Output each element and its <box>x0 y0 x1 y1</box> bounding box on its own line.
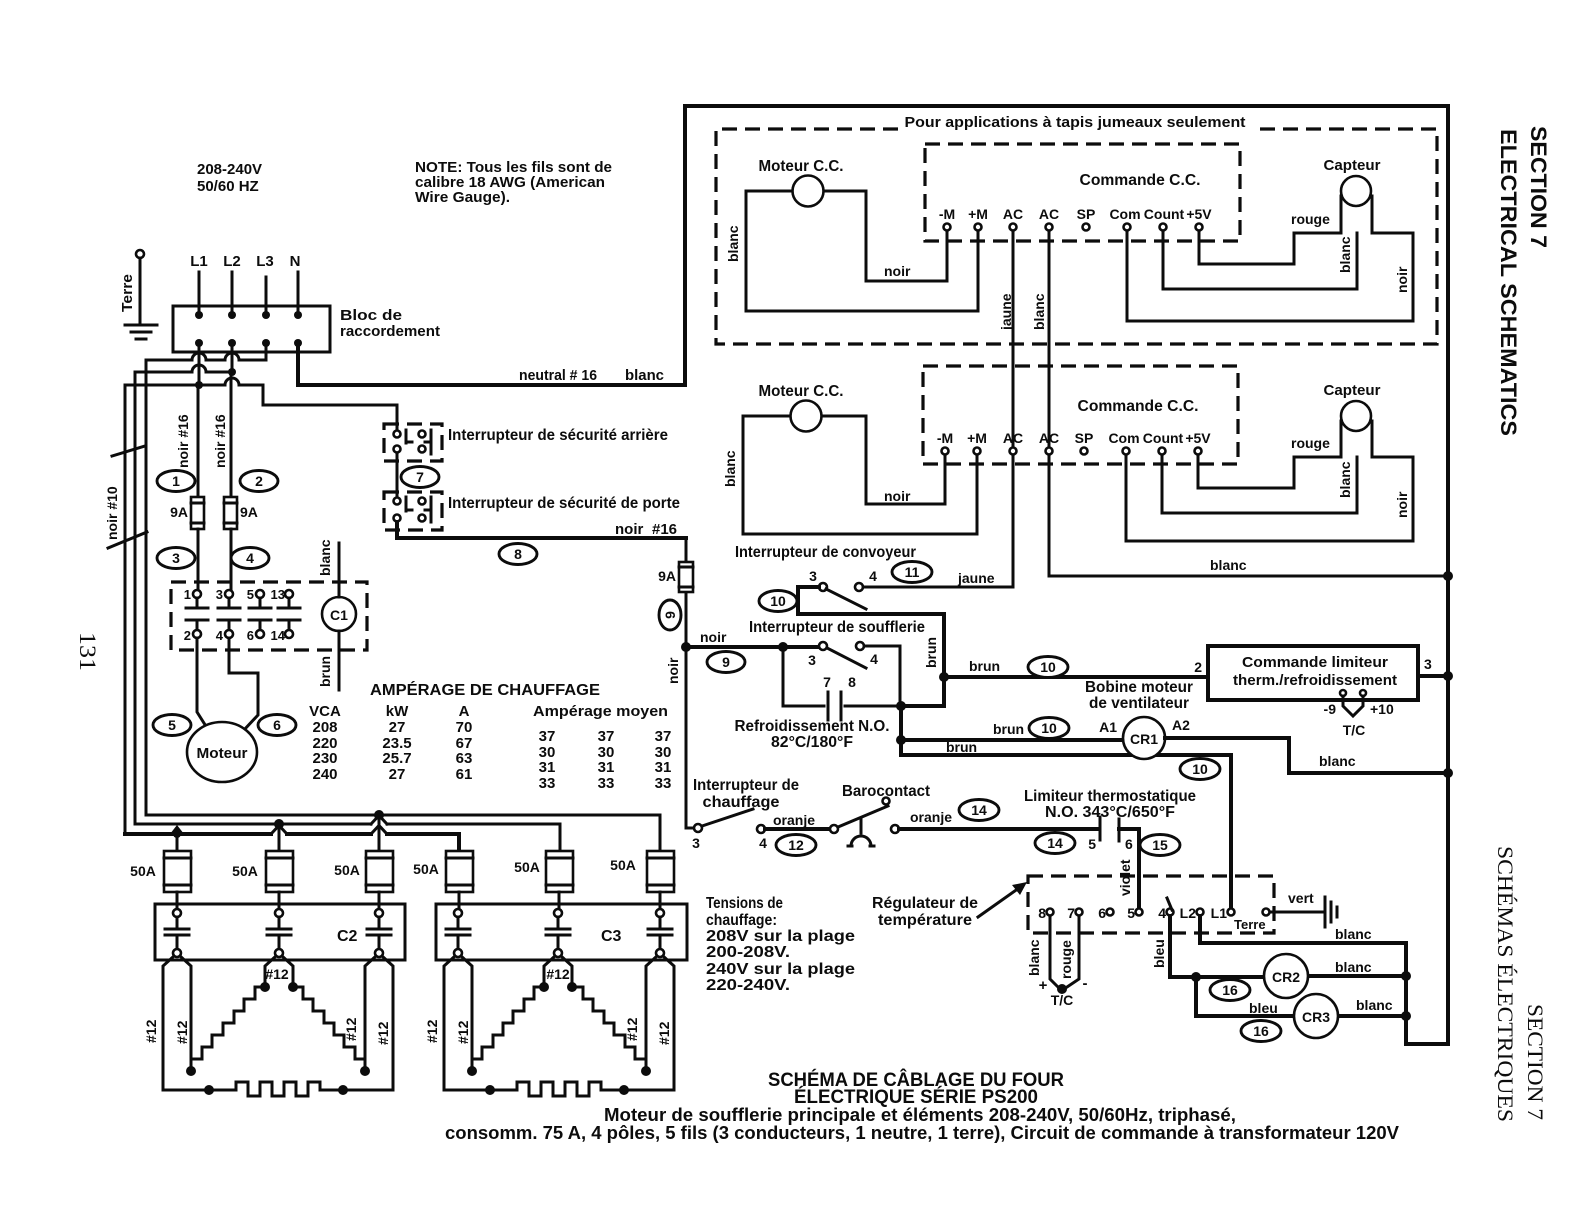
svg-text:Moteur C.C.: Moteur C.C. <box>759 158 844 175</box>
circled 4 <box>231 548 269 569</box>
C3 element junction dots <box>539 982 549 992</box>
junction dot on rail <box>1443 768 1453 778</box>
svg-text:5: 5 <box>1127 905 1135 921</box>
leader tick lower <box>108 532 147 548</box>
svg-text:#12: #12 <box>375 1021 391 1045</box>
svg-text:AC: AC <box>1039 430 1059 446</box>
C2 bottom junction dots <box>204 1085 214 1095</box>
fuse F3 9A (control) <box>658 538 693 647</box>
svg-text:7: 7 <box>416 469 424 485</box>
svg-text:blanc: blanc <box>1337 236 1353 273</box>
circled 10 <box>759 591 797 612</box>
svg-text:230: 230 <box>312 750 337 767</box>
wire soufflerie 4 down <box>864 646 900 706</box>
svg-text:7: 7 <box>1067 905 1075 921</box>
wire terre to ground vert <box>1270 911 1325 914</box>
svg-text:L3: L3 <box>256 253 274 270</box>
element heater zigzag C2 right <box>293 987 365 1071</box>
C1 contact 13-14 <box>271 587 300 643</box>
C3 pole 3 contact <box>648 909 672 957</box>
svg-text:noir: noir <box>700 629 727 645</box>
C3 pole3 tent wires <box>646 956 674 1090</box>
svg-text:208V sur la plage: 208V sur la plage <box>706 928 855 945</box>
svg-text:11: 11 <box>905 564 920 580</box>
svg-text:consomm. 75 A, 4 pôles, 5 fils: consomm. 75 A, 4 pôles, 5 fils (3 conduc… <box>445 1123 1399 1143</box>
wire L2 phase: down, left with hop, down middle column <box>135 343 232 824</box>
svg-text:Bobine moteur: Bobine moteur <box>1085 679 1193 696</box>
svg-text:AMPÉRAGE DE CHAUFFAGE: AMPÉRAGE DE CHAUFFAGE <box>370 680 600 699</box>
svg-text:33: 33 <box>655 775 672 792</box>
svg-text:50/60 HZ: 50/60 HZ <box>197 178 259 195</box>
svg-text:Régulateur de: Régulateur de <box>872 895 978 912</box>
svg-text:82°C/180°F: 82°C/180°F <box>771 734 853 751</box>
svg-text:14: 14 <box>1047 835 1063 851</box>
circled 14 <box>1035 833 1075 854</box>
box commande limiteur therm./refroidissement <box>1208 646 1418 700</box>
C2 pole 1 contact <box>165 909 189 957</box>
svg-text:Com: Com <box>1108 430 1139 446</box>
svg-text:SP: SP <box>1077 206 1096 222</box>
ground symbol (rotated) <box>1325 897 1337 927</box>
svg-text:33: 33 <box>598 775 615 792</box>
svg-text:brun: brun <box>923 637 939 668</box>
svg-text:brun: brun <box>969 658 1000 674</box>
junction fuse2 on middle feeder <box>274 819 284 829</box>
svg-text:noir: noir <box>615 521 643 538</box>
wire L2 stub <box>231 272 234 311</box>
wire violet limiteur to regulateur 5 <box>1119 829 1139 907</box>
C2 pole 2 contact <box>267 909 291 957</box>
wire fuse2 stem <box>278 824 281 851</box>
svg-text:jaune: jaune <box>998 293 1014 331</box>
svg-text:2: 2 <box>1194 659 1202 675</box>
svg-text:2: 2 <box>184 628 191 643</box>
svg-text:9A: 9A <box>240 504 258 520</box>
svg-text:L2: L2 <box>1180 905 1197 921</box>
wire C1 contact4 to motor <box>229 638 258 731</box>
wire noir down to chauffage <box>686 647 694 828</box>
svg-text:blanc: blanc <box>725 225 741 262</box>
wire fuse3 stem <box>378 815 381 851</box>
circled 9 (rotated) <box>659 600 681 630</box>
porte contacts <box>394 497 432 522</box>
leader tick upper <box>112 446 145 456</box>
junction fuse3 on top feeder <box>374 810 384 820</box>
svg-text:SP: SP <box>1075 430 1094 446</box>
wire L3 phase: down, left with hops, down left column <box>146 343 266 815</box>
svg-text:Capteur: Capteur <box>1324 157 1381 174</box>
svg-text:31: 31 <box>539 759 556 776</box>
wire Com1 noir to capteur <box>1127 231 1413 321</box>
svg-text:chauffage:: chauffage: <box>706 912 777 929</box>
element heater zigzag C3 left <box>472 987 544 1071</box>
svg-text:#16: #16 <box>652 521 677 538</box>
wire fuse1 to C1 contact 1 <box>197 529 200 589</box>
svg-text:14: 14 <box>971 802 987 818</box>
svg-text:63: 63 <box>456 750 473 767</box>
svg-text:Pour applications à tapis jume: Pour applications à tapis jumeaux seulem… <box>905 114 1246 131</box>
wire hop L1-branch over L2 <box>225 378 239 385</box>
circled 7 <box>401 467 439 488</box>
svg-text:oranje: oranje <box>773 812 815 828</box>
tick above regulateur terminal 4 <box>1167 898 1172 910</box>
svg-text:Commande C.C.: Commande C.C. <box>1080 172 1201 189</box>
svg-text:Capteur: Capteur <box>1324 382 1381 399</box>
terminals block2 <box>937 430 1211 455</box>
svg-text:noir: noir <box>884 263 911 279</box>
svg-text:#12: #12 <box>424 1019 440 1043</box>
svg-text:rouge: rouge <box>1291 435 1330 451</box>
motor Moteur <box>187 722 257 782</box>
circled 8 <box>499 544 537 565</box>
svg-text:noir #16: noir #16 <box>175 414 191 468</box>
svg-text:N.O. 343°C/650°F: N.O. 343°C/650°F <box>1045 804 1175 821</box>
svg-text:Refroidissement N.O.: Refroidissement N.O. <box>735 718 890 735</box>
contactor C1 dashed box <box>171 582 367 650</box>
terminals block1: -M +M AC AC SP Com Count +5V <box>939 206 1212 231</box>
fuse F2 9A <box>224 497 258 529</box>
svg-text:T/C: T/C <box>1343 722 1366 738</box>
svg-text:vert: vert <box>1288 890 1314 906</box>
svg-text:Interrupteur de convoyeur: Interrupteur de convoyeur <box>735 544 916 561</box>
svg-text:blanc: blanc <box>625 367 664 384</box>
svg-text:4: 4 <box>246 550 254 566</box>
svg-text:Terre: Terre <box>1234 917 1266 932</box>
circled 9 <box>707 652 745 673</box>
svg-text:16: 16 <box>1222 982 1238 998</box>
svg-text:#12: #12 <box>455 1020 471 1044</box>
svg-text:Moteur: Moteur <box>197 745 248 762</box>
svg-text:blanc: blanc <box>1319 753 1356 769</box>
svg-text:50A: 50A <box>514 859 540 875</box>
fuse 50A no.6 <box>610 851 674 892</box>
svg-text:50A: 50A <box>232 863 258 879</box>
svg-text:noir #16: noir #16 <box>212 414 228 468</box>
title block bottom <box>445 1069 1399 1143</box>
svg-text:27: 27 <box>389 766 406 783</box>
svg-text:blanc: blanc <box>317 539 333 576</box>
element heater zigzag C2 left <box>191 987 265 1071</box>
svg-text:50A: 50A <box>413 861 439 877</box>
wire oranje barocontact to limiteur <box>899 827 1097 831</box>
svg-text:neutral # 16: neutral # 16 <box>519 367 597 384</box>
svg-text:CR3: CR3 <box>1302 1009 1330 1025</box>
junction fuse1 on bottom feeder <box>170 825 184 834</box>
svg-text:31: 31 <box>598 759 615 776</box>
circled 1 <box>157 471 195 492</box>
svg-text:200-208V.: 200-208V. <box>706 944 790 961</box>
svg-text:9A: 9A <box>170 504 188 520</box>
svg-text:C2: C2 <box>337 928 358 945</box>
svg-text:131: 131 <box>75 632 100 671</box>
circled 5 <box>153 715 191 736</box>
wire L1 branch to security switches with hop over L2 <box>199 385 397 430</box>
svg-text:240: 240 <box>312 766 337 783</box>
contactor C3 box <box>436 904 687 960</box>
svg-text:9: 9 <box>722 654 730 670</box>
wire motor2 right noir to -M <box>822 416 945 504</box>
svg-text:31: 31 <box>655 759 672 776</box>
element heater zigzag C3 right <box>572 987 646 1071</box>
relay coil CR3 <box>1196 977 1406 1038</box>
svg-text:therm./refroidissement: therm./refroidissement <box>1233 672 1397 689</box>
wire fuse2 to C1 contact 3 <box>230 529 233 589</box>
svg-text:Moteur de soufflerie principa: Moteur de soufflerie principale et éléme… <box>604 1105 1236 1125</box>
svg-text:blanc: blanc <box>1031 293 1047 330</box>
wire noir#16 L2 down to fuse 2 <box>230 372 233 497</box>
svg-text:15: 15 <box>1152 837 1168 853</box>
fuse 50A no.1 <box>130 851 191 892</box>
C3 pole2 tent wires <box>544 956 572 987</box>
svg-text:N: N <box>290 253 301 270</box>
svg-text:oranje: oranje <box>910 809 952 825</box>
svg-text:C3: C3 <box>601 928 622 945</box>
wire +5V1 rouge to capteur <box>1199 231 1341 264</box>
svg-text:L1: L1 <box>1211 905 1228 921</box>
svg-text:6: 6 <box>1098 905 1106 921</box>
circled 11 <box>892 562 932 583</box>
svg-text:rouge: rouge <box>1058 940 1074 979</box>
svg-text:bleu: bleu <box>1249 1000 1278 1016</box>
svg-text:6: 6 <box>1125 836 1133 852</box>
C2 element junction dots <box>260 982 270 992</box>
wire commande limiteur 3 to rail <box>1418 674 1448 678</box>
wire convoyeur 3 to brun bus <box>798 587 944 706</box>
svg-text:blanc: blanc <box>1356 997 1393 1013</box>
terminal dots bottom row <box>195 339 203 347</box>
svg-text:6: 6 <box>273 717 281 733</box>
junction dot <box>1191 972 1201 982</box>
hop bottom feeder over fuse3 stem <box>371 826 387 835</box>
svg-text:A2: A2 <box>1172 717 1190 733</box>
table AMPERAGE DE CHAUFFAGE <box>309 680 671 792</box>
C2 pole2 tent wires <box>265 956 293 987</box>
svg-text:brun: brun <box>946 739 977 755</box>
svg-text:Interrupteur de sécurité de po: Interrupteur de sécurité de porte <box>448 495 680 512</box>
arriere contacts <box>394 430 432 454</box>
svg-text:AC: AC <box>1003 206 1023 222</box>
heating feeder top (L3) <box>146 815 660 849</box>
svg-text:AC: AC <box>1003 430 1023 446</box>
svg-text:3: 3 <box>692 835 700 851</box>
wire motor1 left blanc loop <box>746 191 978 311</box>
svg-text:L2: L2 <box>223 253 241 270</box>
svg-text:+5V: +5V <box>1186 206 1212 222</box>
junction dot on rail <box>1443 571 1453 581</box>
wire blanc above C1 <box>338 543 341 597</box>
fuse 50A no.3 <box>334 851 393 892</box>
svg-text:37: 37 <box>655 728 672 745</box>
svg-text:Commande C.C.: Commande C.C. <box>1078 398 1199 415</box>
svg-text:chauffage: chauffage <box>703 794 780 811</box>
svg-text:Interrupteur de sécurité arriè: Interrupteur de sécurité arrière <box>448 427 668 444</box>
svg-text:10: 10 <box>1192 761 1208 777</box>
contact refroidissement N.O. 7-8 <box>783 647 900 720</box>
svg-text:3: 3 <box>809 568 817 584</box>
wire CR1 A2 to rail blanc <box>1165 738 1448 773</box>
svg-text:7: 7 <box>823 674 831 690</box>
svg-text:3: 3 <box>216 587 223 602</box>
regulateur terminals <box>1038 905 1269 932</box>
svg-text:Moteur C.C.: Moteur C.C. <box>759 383 844 400</box>
svg-text:4: 4 <box>1158 905 1166 921</box>
wire C1 contact2 to motor <box>197 638 209 731</box>
svg-text:208: 208 <box>312 719 337 736</box>
wire L3 stub <box>265 277 268 311</box>
svg-text:5: 5 <box>1088 836 1096 852</box>
svg-text:13: 13 <box>271 587 285 602</box>
C3 pole 1 contact <box>446 909 470 957</box>
svg-text:3: 3 <box>808 652 816 668</box>
wire noir#16 L1 down to fuse 1 <box>197 385 200 497</box>
svg-text:raccordement: raccordement <box>340 323 440 340</box>
C3 bottom junction dots <box>485 1085 495 1095</box>
svg-text:37: 37 <box>539 728 556 745</box>
svg-text:1: 1 <box>184 587 191 602</box>
svg-text:SECTION 7: SECTION 7 <box>1523 1004 1548 1120</box>
svg-text:de ventilateur: de ventilateur <box>1089 695 1189 712</box>
circled 2 <box>240 471 278 492</box>
circled 12 <box>776 835 816 856</box>
svg-text:50A: 50A <box>334 862 360 878</box>
svg-text:VCA: VCA <box>309 703 341 720</box>
junction dot L1 split <box>195 381 203 389</box>
svg-text:5: 5 <box>247 587 254 602</box>
fuse 50A no.5 <box>514 851 573 892</box>
wire L1 phase: down, left, down left column <box>125 343 199 834</box>
svg-text:Tensions de: Tensions de <box>706 895 783 912</box>
svg-text:Terre: Terre <box>120 274 136 312</box>
wire Com2 noir to capteur2 <box>1126 455 1413 541</box>
wire jaune from convoyeur 4 to AC <box>863 586 1013 589</box>
hop middle feeder over fuse3 stem <box>371 816 387 825</box>
svg-text:rouge: rouge <box>1291 211 1330 227</box>
svg-text:#12: #12 <box>546 966 570 982</box>
svg-text:A: A <box>459 703 470 720</box>
svg-text:brun: brun <box>317 656 333 687</box>
wire hop L3 over L1 <box>192 353 206 360</box>
wire jaune AC1 down through both blocks <box>1012 231 1015 587</box>
switch securite de porte dashed box <box>384 492 442 530</box>
svg-text:blanc: blanc <box>1335 959 1372 975</box>
svg-text:5: 5 <box>168 717 176 733</box>
thermocouple T/C of regulateur <box>1050 916 1079 989</box>
svg-text:2: 2 <box>255 473 263 489</box>
relay coil CR1 <box>1099 717 1190 759</box>
junction dot <box>1401 1011 1411 1021</box>
circled 16 <box>1210 980 1250 1001</box>
box regulateur de temperature (dashed) <box>1028 876 1274 933</box>
svg-text:8: 8 <box>514 546 522 562</box>
svg-text:25.7: 25.7 <box>382 750 411 767</box>
hop bottom feeder over fuse2 stem <box>271 826 287 835</box>
circled 16 <box>1241 1021 1281 1042</box>
circled 15 <box>1140 835 1180 856</box>
C2 pole 3 contact <box>367 909 391 957</box>
coil C1 <box>322 597 356 631</box>
junction dot on rail <box>1443 671 1453 681</box>
svg-text:8: 8 <box>1038 905 1046 921</box>
svg-text:kW: kW <box>386 703 409 720</box>
svg-text:+10: +10 <box>1370 701 1394 717</box>
svg-text:blanc: blanc <box>722 450 738 487</box>
svg-text:6: 6 <box>247 628 254 643</box>
junction dot soufflerie tap <box>778 642 788 652</box>
svg-text:#12: #12 <box>143 1019 159 1043</box>
svg-text:10: 10 <box>1040 659 1056 675</box>
circled 3 <box>157 548 195 569</box>
fuse F1 9A <box>170 497 204 529</box>
svg-text:A1: A1 <box>1099 719 1117 735</box>
terminal dots top row <box>195 311 203 319</box>
svg-text:+5V: +5V <box>1185 430 1211 446</box>
C2 pole1 tent wires <box>163 956 191 1090</box>
svg-text:#12: #12 <box>343 1017 359 1041</box>
svg-text:-M: -M <box>937 430 953 446</box>
switch securite arriere dashed box <box>384 424 442 461</box>
svg-text:Ampérage moyen: Ampérage moyen <box>533 703 668 720</box>
wire +5V2 rouge to capteur2 <box>1198 455 1341 488</box>
svg-text:C1: C1 <box>330 607 348 623</box>
circled 10 <box>1028 657 1068 678</box>
svg-text:Count: Count <box>1144 206 1185 222</box>
wire blanc AC2 down <box>1048 231 1051 447</box>
svg-text:#12: #12 <box>265 966 289 982</box>
svg-text:Wire Gauge).: Wire Gauge). <box>415 189 510 206</box>
svg-text:Commande limiteur: Commande limiteur <box>1242 654 1388 671</box>
svg-text:+M: +M <box>967 430 987 446</box>
control box Commande C.C. no.1 dashed <box>925 144 1240 241</box>
svg-text:CR1: CR1 <box>1130 731 1158 747</box>
svg-text:blanc: blanc <box>1210 557 1247 573</box>
wire L2 blanc to right drop <box>1200 916 1448 1044</box>
junction dot <box>1401 971 1411 981</box>
wire brun to CR1 A1 <box>901 738 1123 742</box>
control box Commande C.C. no.2 dashed <box>923 366 1238 464</box>
wire arriere to porte <box>396 453 399 497</box>
svg-text:220-240V.: 220-240V. <box>706 977 790 994</box>
svg-text:AC: AC <box>1039 206 1059 222</box>
svg-text:3: 3 <box>1424 656 1432 672</box>
junction dot brun tap <box>939 672 949 682</box>
fuse 50A no.2 <box>232 851 293 892</box>
svg-text:10: 10 <box>1041 720 1057 736</box>
svg-text:4: 4 <box>870 651 878 667</box>
wire brun below C1 <box>338 631 341 690</box>
svg-text:27: 27 <box>389 719 406 736</box>
svg-text:50A: 50A <box>610 857 636 873</box>
svg-text:blanc: blanc <box>1335 926 1372 942</box>
wire hop L3 over L2 <box>225 353 239 360</box>
svg-text:16: 16 <box>1253 1023 1269 1039</box>
svg-text:33: 33 <box>539 775 556 792</box>
relay coil CR2 <box>1196 954 1406 998</box>
svg-text:Com: Com <box>1109 206 1140 222</box>
wire motor2 left blanc loop <box>743 416 977 534</box>
svg-text:14: 14 <box>271 628 286 643</box>
junction dot noir <box>681 642 691 652</box>
svg-text:70: 70 <box>456 719 473 736</box>
ground symbol <box>125 325 157 339</box>
svg-text:37: 37 <box>598 728 615 745</box>
wire N to neutral bus <box>298 343 685 385</box>
junction dot L2 split <box>228 368 236 376</box>
label tensions de chauffage <box>706 895 855 994</box>
svg-text:50A: 50A <box>130 863 156 879</box>
C3 bottom wire with meander element <box>444 1082 674 1096</box>
outer frame wire (neutral riser, top edge, right rail) <box>685 106 1448 1044</box>
svg-text:+: + <box>1039 977 1048 994</box>
